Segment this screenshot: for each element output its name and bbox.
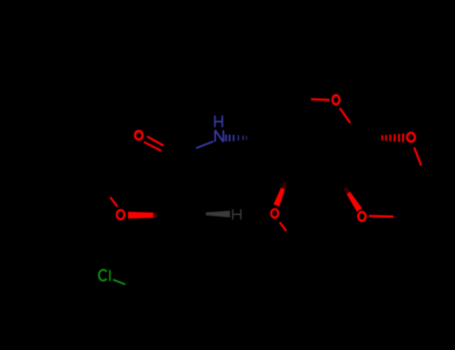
benzyl CH2-O bond red half [110,197,117,207]
bold wedge O-C2' dark fade tip [153,213,157,218]
hashed wedge N to C4 (blue half) [225,135,247,142]
C2 OMe O-CH3 bond red half [369,215,394,218]
C3 OMe O label [271,209,278,217]
pyran ring O label [333,95,340,104]
C=O double bond upper red half [147,136,164,145]
anomeric OMe O-CH3 bond red half [414,148,421,166]
amide N-H hydrogen label [215,116,222,128]
bold wedge O to C2' (red half) [128,212,153,219]
ring O to C5 bond red half [311,98,330,101]
amide N label [215,130,223,142]
bold wedge C2 dark fade tip [343,187,350,194]
N-C(=O) bond blue half [196,141,213,148]
bold wedge C2 to OMe (red half) [347,192,363,212]
C3 OMe O-CH3 bond red half [280,222,287,231]
stereo H label (gray) [233,209,241,220]
Cl label (chloromethyl) [99,270,110,281]
C=O double bond lower red half [144,142,161,151]
ring O to C1 bond red half [340,108,350,123]
hashed wedge C3' to H (gray) [206,211,230,218]
hashed wedge C1 to OMe (red half) [381,133,404,142]
C2 OMe O label [358,212,365,221]
bold wedge C3 to OMe (red half) [274,188,285,207]
carbonyl O (amide C=O oxygen label) [135,131,143,140]
anomeric OMe O label [407,133,415,142]
benzyloxy O label [117,210,125,219]
C-Cl bond green half [113,280,125,285]
bold wedge C3 dark fade tip [281,182,287,189]
